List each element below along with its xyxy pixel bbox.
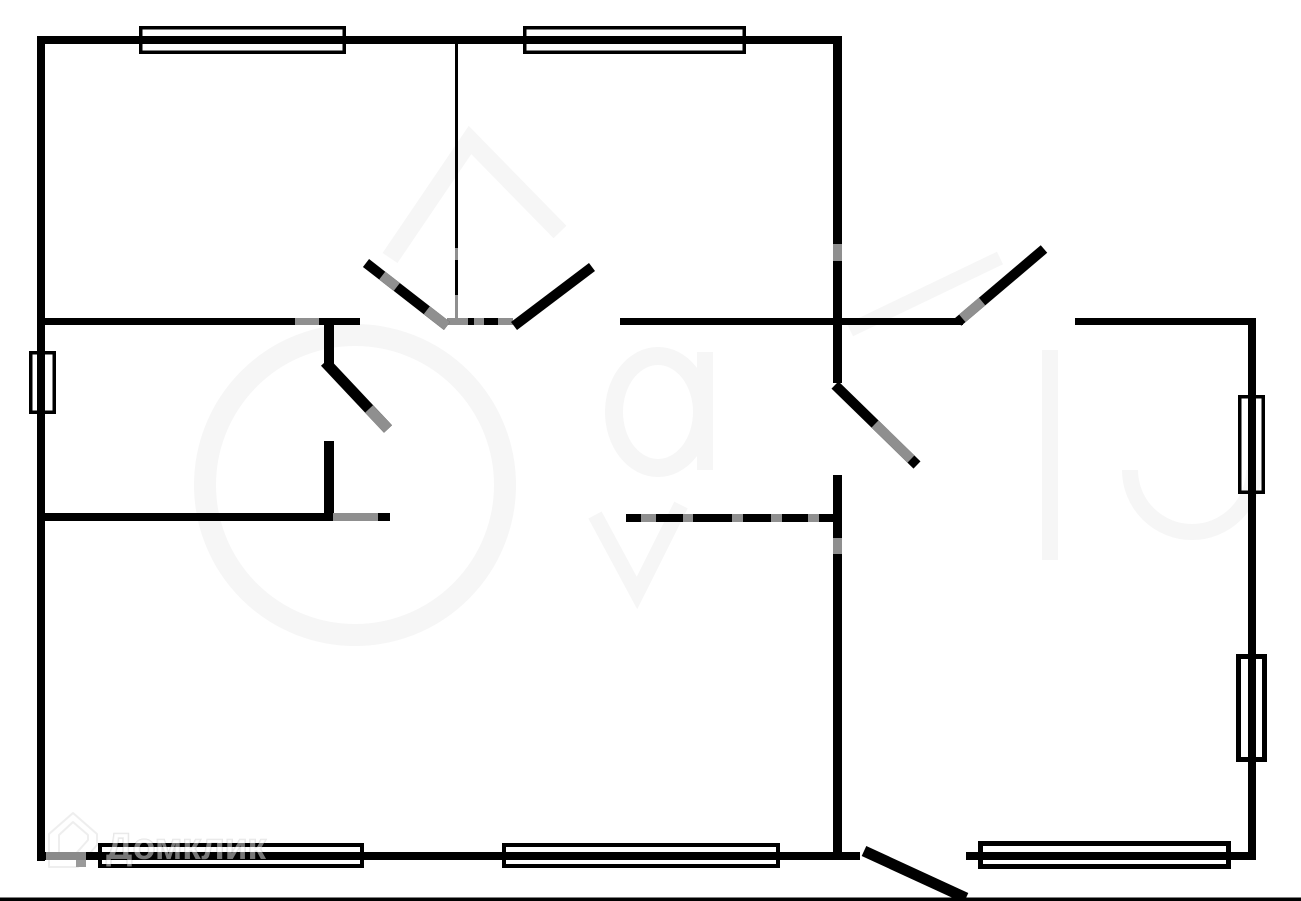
door D3 gray patch xyxy=(962,302,982,319)
center vertical wall upper xyxy=(833,36,842,383)
left room top wall xyxy=(37,318,360,325)
bottom wall left xyxy=(37,852,860,860)
door D5 gray patch xyxy=(369,409,388,429)
bottom wall right xyxy=(966,852,1252,860)
door D1 leaf xyxy=(366,263,447,326)
dashed lower wall xyxy=(626,514,841,522)
gray patch on left room top wall xyxy=(295,318,319,325)
right top wall xyxy=(1075,318,1256,325)
hall wall right xyxy=(842,318,963,325)
gray patch on small room bottom wall xyxy=(333,513,378,521)
gray patch on center wall lower xyxy=(833,538,842,554)
small room right wall lower stub xyxy=(324,441,334,521)
thin partition wall xyxy=(455,44,458,318)
door D2 leaf xyxy=(514,267,592,326)
door D5 leaf xyxy=(325,362,388,429)
left wall xyxy=(37,36,45,861)
small room bottom wall xyxy=(37,513,390,521)
faint central watermark (under art) xyxy=(205,140,1254,635)
right wall xyxy=(1248,318,1256,860)
door D4 gray patch xyxy=(875,424,911,459)
threshold black wedge 1 xyxy=(468,318,474,325)
window W2 top xyxy=(525,28,745,53)
gray patch on bottom wall under house logo xyxy=(46,852,86,860)
center vertical wall lower xyxy=(833,475,842,860)
threshold black wedge 2 xyxy=(484,318,498,325)
small room right wall upper stub xyxy=(324,318,334,365)
hall wall left xyxy=(620,318,842,325)
watermark logo house (under art layer, band outline) xyxy=(49,813,97,867)
window W4 bottom xyxy=(100,845,362,866)
door D1 gray patch upper xyxy=(382,276,397,287)
threshold line gray xyxy=(447,318,513,325)
gray patch on thin wall upper xyxy=(455,248,458,260)
window W8 right xyxy=(1239,657,1265,760)
door D1 gray patch lower xyxy=(427,310,447,326)
svg-text:Домклик: Домклик xyxy=(106,826,267,867)
window W7 right xyxy=(1240,397,1264,493)
door D3 leaf xyxy=(958,249,1044,322)
gray dashes on dashed wall xyxy=(641,514,819,522)
window W1 top xyxy=(141,28,345,53)
top wall xyxy=(37,36,841,44)
gray patch on thin wall lower xyxy=(455,295,458,318)
window W5 bottom xyxy=(504,845,778,866)
bottom border bar xyxy=(0,898,1301,901)
gray tail of house logo xyxy=(76,860,86,867)
door D6 leaf xyxy=(864,851,966,898)
window W3 left xyxy=(31,353,55,413)
window W6 bottom right xyxy=(981,844,1229,867)
gray patch on center wall upper xyxy=(833,244,842,261)
door D4 leaf xyxy=(835,385,917,465)
